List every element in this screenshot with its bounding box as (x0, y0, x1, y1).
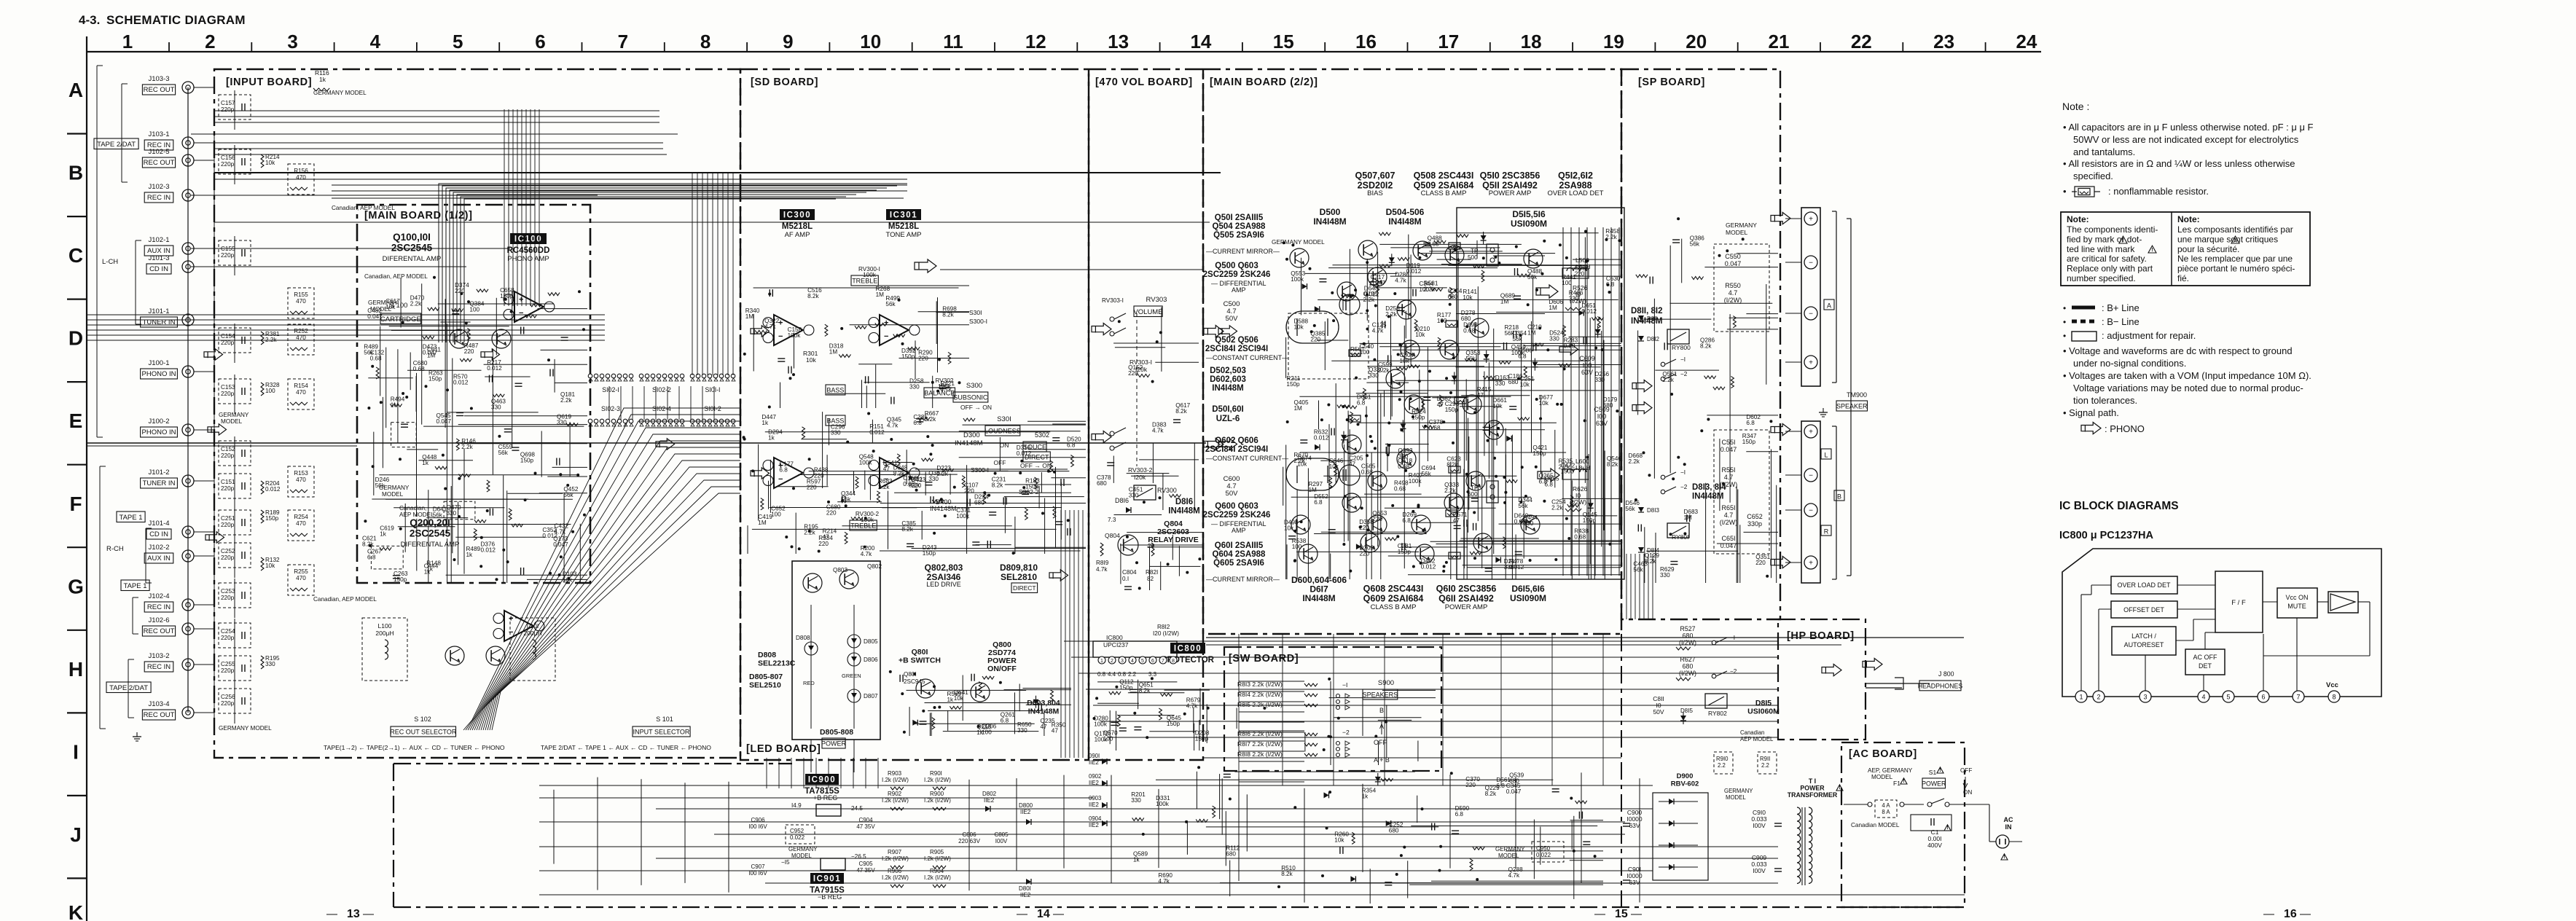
svg-text:330: 330 (1660, 572, 1670, 579)
svg-text:IC800: IC800 (1174, 645, 1202, 654)
svg-text:D300: D300 (963, 431, 980, 439)
svg-text:1k: 1k (422, 460, 429, 466)
svg-text:OVER LOAD DET: OVER LOAD DET (2117, 581, 2171, 589)
svg-text:−2: −2 (1730, 668, 1737, 675)
svg-text:2.2k: 2.2k (461, 444, 473, 450)
svg-text:470: 470 (296, 389, 306, 396)
svg-text:3: 3 (2143, 694, 2147, 701)
svg-text:—: — (1594, 908, 1605, 920)
svg-text:12: 12 (1025, 31, 1046, 52)
svg-text:REC OUT: REC OUT (144, 159, 175, 167)
svg-text:AUTORESET: AUTORESET (2124, 641, 2164, 648)
svg-text:0.012: 0.012 (1314, 434, 1329, 441)
svg-text:56k: 56k (433, 512, 443, 519)
svg-text:I.2k (I/2W): I.2k (I/2W) (882, 777, 909, 783)
svg-text:220: 220 (464, 348, 474, 355)
svg-text:J103-4: J103-4 (148, 700, 169, 708)
svg-text:Q6I0 2SC3856: Q6I0 2SC3856 (1436, 584, 1497, 594)
svg-text:R907: R907 (888, 849, 902, 855)
svg-text:220p: 220p (221, 667, 235, 674)
svg-text:+: + (519, 295, 523, 304)
svg-text:D8I2: D8I2 (1647, 336, 1659, 342)
svg-text:AC: AC (2004, 816, 2013, 823)
svg-text:2SC2545: 2SC2545 (410, 528, 451, 539)
svg-text:RY800: RY800 (1672, 344, 1691, 351)
svg-text:16: 16 (1355, 31, 1377, 52)
svg-text:•: • (2063, 186, 2067, 197)
svg-text:—: — (1017, 908, 1027, 920)
svg-text:under no-signal conditions.: under no-signal conditions. (2073, 358, 2186, 369)
svg-text:[SP BOARD]: [SP BOARD] (1638, 77, 1705, 88)
svg-text:0.047: 0.047 (1371, 280, 1386, 286)
svg-text:9: 9 (783, 31, 793, 52)
svg-text:6.8: 6.8 (1402, 517, 1411, 524)
svg-text:IN4I48M: IN4I48M (1212, 384, 1243, 393)
svg-text:+: + (1809, 560, 1813, 568)
svg-text:POWER: POWER (821, 740, 847, 748)
svg-text:GERMANY: GERMANY (219, 412, 249, 418)
svg-text:150p: 150p (394, 576, 407, 583)
svg-text:!: ! (1946, 826, 1948, 831)
svg-text:330: 330 (447, 510, 457, 517)
svg-text:D808: D808 (758, 651, 776, 659)
svg-text:F / F: F / F (2231, 599, 2246, 607)
svg-text:Q508 2SC443I: Q508 2SC443I (1414, 171, 1474, 181)
svg-text:470: 470 (296, 477, 306, 483)
svg-text:T I: T I (1809, 777, 1816, 785)
svg-text:GREEN: GREEN (842, 673, 861, 679)
svg-text:Q802: Q802 (867, 563, 882, 570)
svg-text:0.012: 0.012 (265, 486, 281, 493)
svg-text:−2: −2 (1342, 729, 1350, 736)
svg-text:Q50I 2SAIII5: Q50I 2SAIII5 (1215, 213, 1264, 222)
svg-text:L: L (1824, 452, 1828, 459)
svg-text:IC301: IC301 (890, 211, 917, 220)
svg-text:[LED BOARD]: [LED BOARD] (746, 743, 821, 755)
svg-text:470: 470 (296, 520, 306, 527)
svg-text:1k: 1k (976, 729, 984, 736)
svg-text:10k: 10k (1463, 294, 1473, 301)
svg-text:220p: 220p (221, 522, 235, 528)
svg-text:330: 330 (1569, 296, 1579, 302)
svg-text:0904: 0904 (1089, 815, 1102, 822)
svg-text:C804: C804 (1122, 569, 1137, 576)
svg-text:TAPE 1: TAPE 1 (123, 582, 146, 590)
svg-text:47: 47 (1349, 461, 1356, 468)
svg-text:150p: 150p (1532, 450, 1546, 457)
svg-text:C55I: C55I (1721, 439, 1735, 446)
svg-text:0.022: 0.022 (1536, 852, 1551, 858)
svg-text:10k: 10k (806, 356, 816, 364)
svg-text:IN4148M: IN4148M (955, 439, 983, 447)
svg-text:220p: 220p (221, 554, 235, 561)
svg-text:R9II: R9II (1760, 756, 1770, 762)
svg-text:D805: D805 (864, 638, 878, 645)
svg-text:I00V: I00V (995, 838, 1008, 844)
svg-text:R905: R905 (930, 849, 944, 855)
svg-text:C65I: C65I (1721, 535, 1735, 542)
svg-text:PHONO IN: PHONO IN (142, 370, 176, 378)
svg-text:4.7k: 4.7k (1152, 428, 1164, 434)
svg-text:AF AMP: AF AMP (785, 231, 810, 239)
svg-text:680: 680 (1603, 402, 1613, 409)
svg-text:: adjustment for repair.: : adjustment for repair. (2102, 330, 2196, 341)
svg-text:D6I5,6I6: D6I5,6I6 (1511, 584, 1545, 594)
svg-text:IC800 μ PC1237HA: IC800 μ PC1237HA (2059, 530, 2153, 541)
svg-text:R154: R154 (294, 383, 308, 389)
svg-text:100k: 100k (859, 460, 873, 466)
svg-text:100k: 100k (956, 513, 970, 520)
svg-text:Ne les remplacer que par une: Ne les remplacer que par une (2177, 254, 2293, 264)
svg-text:1M: 1M (427, 353, 436, 359)
svg-text:F1: F1 (1893, 780, 1900, 787)
svg-text:POWER AMP: POWER AMP (1489, 189, 1532, 197)
svg-text:82: 82 (1147, 576, 1154, 582)
svg-text:220p: 220p (221, 595, 235, 601)
svg-text:7: 7 (2296, 694, 2300, 701)
svg-text:S300: S300 (966, 382, 982, 390)
svg-text:C256: C256 (221, 694, 235, 700)
svg-text:8.2k: 8.2k (1175, 408, 1187, 415)
svg-text:S1: S1 (1929, 769, 1937, 776)
svg-text:5302: 5302 (1035, 431, 1049, 439)
svg-text:J101-2: J101-2 (148, 469, 169, 477)
svg-text:17: 17 (1438, 31, 1459, 52)
svg-text:S30I: S30I (969, 309, 982, 316)
svg-text:3: 3 (1121, 659, 1124, 664)
svg-text:470: 470 (296, 575, 306, 581)
svg-text:Canadian,: Canadian, (399, 505, 426, 512)
svg-text:8: 8 (700, 31, 710, 52)
svg-text:10k: 10k (954, 695, 964, 702)
svg-text:15: 15 (1273, 31, 1294, 52)
svg-text:R8I3 2.2k (I/2W): R8I3 2.2k (I/2W) (1237, 681, 1283, 688)
svg-text:1k: 1k (466, 552, 474, 558)
svg-text:R153: R153 (294, 470, 308, 477)
svg-text:IC800: IC800 (1106, 634, 1123, 641)
svg-text:USI090M: USI090M (1511, 219, 1547, 229)
svg-text:C905: C905 (858, 861, 873, 867)
svg-text:OFF → ON: OFF → ON (960, 404, 992, 411)
svg-text:680: 680 (1226, 851, 1236, 858)
svg-text:4: 4 (2201, 694, 2205, 701)
svg-text:1M: 1M (1684, 514, 1693, 521)
svg-text:−: − (884, 332, 888, 341)
svg-text:•: • (2063, 317, 2066, 327)
svg-text:ON/OFF: ON/OFF (987, 665, 1017, 673)
svg-text:DIFERENTAL AMP: DIFERENTAL AMP (383, 255, 442, 263)
svg-text:10k: 10k (1334, 837, 1344, 844)
svg-text:63V: 63V (1629, 822, 1640, 829)
svg-text:1M: 1M (1294, 405, 1303, 412)
svg-text:E: E (69, 409, 83, 432)
svg-text:!: ! (2234, 238, 2236, 243)
svg-text:Vcc: Vcc (2326, 681, 2338, 689)
svg-text:I.2k (I/2W): I.2k (I/2W) (924, 777, 951, 783)
svg-text:—CONSTANT CURRENT—: —CONSTANT CURRENT— (1206, 455, 1288, 462)
svg-text:1M: 1M (1549, 305, 1557, 311)
svg-text:!: ! (1903, 779, 1904, 784)
svg-text:680: 680 (1097, 480, 1107, 487)
svg-text:56k: 56k (498, 450, 509, 456)
svg-text:TAPE 2/DAT ← TAPE 1 ← AUX ← CD: TAPE 2/DAT ← TAPE 1 ← AUX ← CD ← TUNER ←… (541, 744, 711, 751)
svg-text:330: 330 (1595, 377, 1605, 383)
svg-text:TUNER IN: TUNER IN (143, 479, 176, 487)
svg-text:0.68: 0.68 (1361, 469, 1373, 476)
svg-text:150p: 150p (520, 458, 534, 464)
svg-text:6.8: 6.8 (1746, 420, 1755, 426)
svg-text:—CURRENT MIRROR—: —CURRENT MIRROR— (1206, 248, 1280, 255)
svg-text:SEL2213C: SEL2213C (758, 659, 796, 667)
svg-text:56k: 56k (1465, 356, 1476, 362)
svg-text:IN4I48M: IN4I48M (1692, 492, 1723, 501)
svg-text:100k: 100k (1409, 478, 1422, 485)
svg-text:M5218L: M5218L (782, 222, 813, 231)
svg-text:AUX IN: AUX IN (147, 554, 171, 563)
svg-text:56k: 56k (1633, 567, 1643, 573)
svg-text:R8I5 2.2k (I/2W): R8I5 2.2k (I/2W) (1237, 701, 1283, 708)
svg-text:220p: 220p (221, 106, 235, 113)
svg-text:DIFERENTAL AMP: DIFERENTAL AMP (401, 541, 460, 549)
svg-text:8.2k: 8.2k (893, 471, 905, 477)
svg-text:RV303-I: RV303-I (1102, 297, 1124, 304)
svg-text:100k: 100k (863, 272, 877, 278)
svg-text:1M: 1M (745, 313, 754, 320)
svg-text:D802: D802 (982, 791, 997, 797)
svg-text:100k: 100k (1291, 276, 1304, 283)
svg-text:SI02-2: SI02-2 (652, 386, 671, 393)
svg-text:PHONO AMP: PHONO AMP (507, 255, 549, 263)
svg-text:• Voltages are taken with: • Voltages are taken with a VOM (Input i… (2063, 370, 2311, 381)
svg-text:0.68: 0.68 (370, 356, 382, 362)
svg-text:220p: 220p (221, 485, 235, 492)
svg-text:J101-3: J101-3 (148, 254, 169, 262)
svg-text:8.2k: 8.2k (942, 311, 954, 318)
svg-text:220: 220 (918, 355, 928, 361)
svg-text:I.8μH: I.8μH (1575, 464, 1591, 471)
svg-text:MODEL: MODEL (1498, 853, 1519, 859)
svg-text:1k: 1k (1362, 793, 1369, 799)
svg-text:SEL2510: SEL2510 (749, 681, 781, 689)
svg-text:63V: 63V (1629, 879, 1640, 886)
svg-text:330: 330 (928, 476, 939, 482)
svg-text:OFFSET DET: OFFSET DET (2123, 606, 2164, 614)
svg-text:Q60I 2SAIII5: Q60I 2SAIII5 (1215, 541, 1264, 550)
svg-text:[MAIN BOARD (1/2)]: [MAIN BOARD (1/2)] (364, 210, 473, 222)
svg-text:UZL-6: UZL-6 (1216, 415, 1240, 423)
svg-text:A: A (1827, 302, 1831, 310)
svg-text:pièce portant le numéro spéci-: pièce portant le numéro spéci- (2177, 264, 2295, 274)
svg-text:D807: D807 (864, 693, 878, 699)
svg-text:C157: C157 (221, 100, 235, 106)
svg-text:Canadian: Canadian (1740, 729, 1764, 736)
svg-text:TRANSFORMER: TRANSFORMER (1788, 791, 1838, 799)
svg-text:330: 330 (1131, 797, 1141, 804)
svg-text:10k: 10k (385, 304, 396, 310)
svg-text:R: R (1824, 528, 1829, 536)
svg-text:C906: C906 (751, 817, 765, 823)
svg-text:6: 6 (2261, 694, 2265, 701)
svg-text:−: − (778, 475, 783, 484)
svg-text:A: A (68, 79, 83, 101)
svg-text:56k: 56k (1625, 506, 1635, 512)
svg-text:4.7k: 4.7k (1186, 703, 1198, 710)
svg-text:IC100: IC100 (514, 235, 542, 244)
svg-text:150p: 150p (1025, 484, 1039, 490)
svg-text:50V: 50V (1226, 315, 1239, 323)
svg-text:ON: ON (1000, 442, 1009, 449)
svg-text:0.68: 0.68 (1574, 533, 1586, 540)
svg-text:C254: C254 (221, 628, 235, 635)
svg-text:—: — (326, 908, 337, 920)
svg-text:4.7: 4.7 (1729, 289, 1738, 297)
svg-text:Q6II 2SAI492: Q6II 2SAI492 (1438, 594, 1494, 604)
svg-text:8.2k: 8.2k (901, 526, 913, 533)
svg-text:C904: C904 (858, 817, 873, 823)
svg-text:REC IN: REC IN (147, 603, 171, 611)
svg-text:2SC2545: 2SC2545 (391, 243, 433, 254)
svg-text:47: 47 (1052, 728, 1059, 734)
svg-text:0.8: 0.8 (1118, 671, 1127, 678)
svg-text:USI090M: USI090M (1510, 593, 1546, 603)
svg-text:150p: 150p (1195, 735, 1209, 742)
svg-text:2.2k: 2.2k (560, 397, 572, 404)
svg-text:!: ! (2122, 238, 2123, 243)
svg-text:150p: 150p (1286, 381, 1300, 388)
svg-text:R55I: R55I (1721, 466, 1735, 474)
svg-text:REC IN: REC IN (147, 663, 171, 671)
svg-text:fié.: fié. (2177, 273, 2189, 283)
svg-text:10k: 10k (1539, 400, 1549, 407)
svg-text:8: 8 (1172, 659, 1175, 664)
svg-text:R8I2: R8I2 (1157, 624, 1170, 630)
svg-text:22: 22 (1851, 31, 1872, 52)
svg-text:R8I7 2.2k (I/2W): R8I7 2.2k (I/2W) (1237, 740, 1283, 748)
svg-text:tion tolerances.: tion tolerances. (2073, 395, 2137, 406)
svg-text:100: 100 (1562, 280, 1572, 286)
svg-text:0.047: 0.047 (1720, 446, 1737, 453)
svg-text:330: 330 (1495, 380, 1506, 387)
svg-text:: B− Line: : B− Line (2102, 316, 2140, 327)
svg-text:56k: 56k (1690, 241, 1700, 248)
svg-text:20: 20 (1686, 31, 1707, 52)
svg-text:MUTE: MUTE (2287, 603, 2306, 610)
svg-text:J100-1: J100-1 (148, 359, 169, 367)
svg-text:USI060M: USI060M (1747, 707, 1780, 716)
svg-text:J101-1: J101-1 (148, 307, 169, 316)
svg-text:470: 470 (296, 174, 306, 181)
svg-text:[470 VOL BOARD]: [470 VOL BOARD] (1095, 77, 1193, 88)
svg-text:TM900: TM900 (1847, 391, 1867, 399)
svg-text:•: • (2063, 303, 2066, 313)
svg-text:1k: 1k (768, 434, 775, 441)
svg-text:POWER: POWER (1922, 780, 1946, 787)
svg-text:TAPE 2/DAT: TAPE 2/DAT (97, 141, 136, 149)
svg-text:R8I8 2.2k (I/2W): R8I8 2.2k (I/2W) (1237, 750, 1283, 758)
svg-text:4.7k: 4.7k (940, 386, 952, 393)
svg-text:IIE2: IIE2 (1089, 759, 1099, 766)
svg-text:+: + (509, 614, 513, 623)
svg-text:J103-3: J103-3 (148, 75, 169, 83)
svg-text:6: 6 (535, 31, 545, 52)
svg-text:0.68: 0.68 (1429, 425, 1441, 431)
svg-text:J102-4: J102-4 (148, 592, 169, 600)
svg-text:UPCI237: UPCI237 (1103, 641, 1129, 648)
svg-text:150p: 150p (500, 293, 514, 299)
svg-text:—CURRENT MIRROR—: —CURRENT MIRROR— (1206, 576, 1280, 583)
svg-text:SUBSONIC: SUBSONIC (953, 394, 988, 401)
svg-text:I00V: I00V (1753, 822, 1766, 829)
svg-text:0.047: 0.047 (1725, 260, 1742, 267)
svg-text:IN4I48M: IN4I48M (1302, 593, 1335, 603)
svg-text:0.68: 0.68 (1463, 328, 1475, 334)
svg-text:10k: 10k (1400, 358, 1410, 364)
svg-text:J103-2: J103-2 (148, 652, 169, 660)
svg-text:47: 47 (1437, 401, 1444, 408)
svg-text:6.8: 6.8 (1001, 718, 1009, 724)
svg-text:2.2: 2.2 (1128, 671, 1137, 678)
svg-text:OVER LOAD DET: OVER LOAD DET (1547, 189, 1603, 197)
svg-text:—: — (2263, 908, 2274, 920)
svg-text:0.012: 0.012 (869, 429, 885, 436)
svg-text:Q507,607: Q507,607 (1355, 171, 1395, 181)
svg-text:2: 2 (1111, 659, 1113, 664)
svg-text:1M: 1M (1500, 299, 1509, 305)
svg-text:C255: C255 (221, 661, 235, 667)
svg-text:330: 330 (265, 661, 275, 667)
svg-text:26: 26 (1148, 543, 1155, 549)
svg-text:I00V: I00V (1753, 867, 1766, 874)
svg-text:L-CH: L-CH (102, 258, 118, 266)
svg-text:150p: 150p (1412, 414, 1425, 420)
svg-text:2.2: 2.2 (1761, 762, 1769, 769)
svg-text:LATCH /: LATCH / (2131, 632, 2156, 640)
svg-text:B: B (68, 162, 83, 184)
svg-text:• All capacitors are in: • All capacitors are in μ F unless other… (2063, 122, 2314, 133)
svg-text:330: 330 (557, 420, 567, 426)
svg-text:REC OUT SELECTOR: REC OUT SELECTOR (390, 729, 457, 736)
svg-text:Canadian, AEP MODEL: Canadian, AEP MODEL (364, 273, 428, 280)
svg-text:SPEAKERS: SPEAKERS (1363, 691, 1398, 699)
svg-text:C: C (68, 244, 83, 267)
svg-text:and tantalums.: and tantalums. (2073, 146, 2135, 157)
svg-text:—: — (1053, 908, 1064, 920)
svg-text:S 101: S 101 (656, 716, 673, 723)
svg-text:S300-I: S300-I (971, 466, 989, 474)
svg-text:1M: 1M (1527, 329, 1536, 336)
svg-text:2SCI84I 2SCI94I: 2SCI84I 2SCI94I (1205, 445, 1268, 454)
svg-text:8.2k: 8.2k (362, 541, 374, 547)
svg-text:AMP: AMP (1232, 527, 1246, 534)
svg-text:+B SWITCH: +B SWITCH (899, 656, 941, 665)
svg-text:1: 1 (2079, 694, 2083, 701)
svg-text:220: 220 (818, 541, 829, 547)
svg-text:Q504 2SA988: Q504 2SA988 (1213, 222, 1266, 231)
svg-text:0.047: 0.047 (553, 541, 568, 548)
svg-text:D805-808: D805-808 (820, 728, 853, 737)
svg-text:6.8: 6.8 (1545, 481, 1554, 487)
svg-text:56k: 56k (563, 492, 573, 498)
svg-text:Q804: Q804 (1105, 532, 1120, 539)
svg-text:LED DRIVE: LED DRIVE (926, 581, 961, 588)
svg-text:150p: 150p (1742, 439, 1756, 445)
svg-text:1M: 1M (876, 291, 885, 298)
svg-text:1k: 1k (1133, 856, 1140, 863)
svg-text:2SC2259 2SK246: 2SC2259 2SK246 (1203, 270, 1271, 279)
svg-text:D8I5: D8I5 (1755, 699, 1772, 708)
svg-text:IN4I48M: IN4I48M (1168, 506, 1199, 515)
svg-text:IIE2: IIE2 (1020, 809, 1031, 815)
